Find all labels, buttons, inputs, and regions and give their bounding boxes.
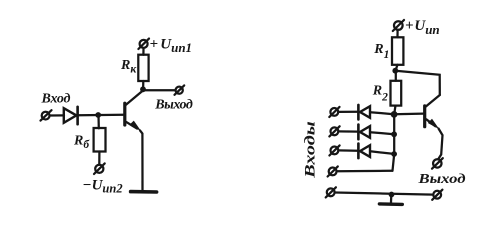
ground	[131, 190, 157, 194]
svg-text:Входы: Входы	[303, 121, 319, 179]
wire Rб to terminal	[98, 152, 100, 165]
svg-text:Вход: Вход	[41, 92, 71, 107]
resistor R1	[392, 37, 403, 65]
resistor Rб	[94, 128, 106, 152]
svg-text:Выход: Выход	[154, 98, 193, 113]
svg-text:R1: R1	[373, 42, 389, 61]
svg-text:Rк: Rк	[120, 58, 137, 75]
wire diode3 to column	[370, 151, 394, 154]
wire input2 to diode	[339, 130, 358, 132]
transistor VT2 base bar	[423, 106, 426, 127]
wire emitter to output terminal	[438, 129, 442, 159]
wire terminal to R1	[396, 30, 398, 37]
ground stem	[390, 195, 393, 203]
junction node base/Rб	[95, 112, 101, 118]
ground bar	[379, 202, 402, 206]
terminal input 2	[329, 126, 339, 136]
junction node collector	[140, 86, 146, 92]
wire input1 to diode	[338, 111, 357, 113]
transistor VT1 collector lead	[126, 91, 143, 105]
wire input to diode	[50, 114, 64, 116]
junction node common	[389, 192, 395, 198]
wire Rк to terminal	[142, 48, 144, 55]
wire input4 to column	[337, 170, 393, 173]
resistor R2	[391, 81, 402, 106]
wire diode2 to column	[370, 132, 394, 134]
terminal Выход right	[432, 158, 443, 169]
wire diode to base	[79, 114, 124, 117]
diode VD2	[358, 105, 370, 120]
wire base node to transistor	[394, 112, 423, 115]
terminal common left	[326, 187, 336, 197]
terminal +Uип	[393, 20, 404, 31]
terminal input 1	[329, 107, 339, 117]
svg-text:R2: R2	[372, 83, 388, 103]
wire emitter down to ground	[140, 130, 143, 190]
wire junction to R2	[395, 71, 397, 81]
transistor VT2 collector lead	[426, 95, 440, 107]
diode VD3	[358, 125, 370, 140]
terminal input Вход	[41, 110, 52, 120]
resistor Rк	[138, 55, 148, 81]
diode VD4	[358, 144, 370, 159]
transistor VT1 base bar	[123, 103, 126, 125]
wire R1 to junction	[396, 65, 398, 71]
diode VD1	[64, 107, 78, 124]
transistor VT1 emitter lead with arrow	[126, 121, 141, 132]
junction node R1/R2	[392, 68, 398, 74]
terminal common right	[432, 190, 442, 200]
terminal +Uип1	[138, 39, 149, 49]
wire common line	[335, 193, 433, 195]
wire R2 to base node	[394, 106, 395, 114]
junction node base	[391, 111, 398, 118]
junction node column row3	[391, 151, 397, 157]
wire feedback loop to collector	[396, 71, 440, 95]
svg-text:Rб: Rб	[73, 134, 90, 152]
wire column vertical	[393, 114, 395, 170]
wire input3 to diode	[339, 149, 358, 152]
svg-text:Выход: Выход	[417, 172, 465, 187]
svg-text:+Uип1: +Uип1	[150, 36, 193, 55]
transistor VT2 emitter lead with arrow	[426, 119, 439, 130]
terminal input 4	[328, 166, 338, 176]
junction node column row2	[391, 131, 397, 137]
svg-text:+Uип: +Uип	[405, 18, 440, 37]
terminal Выход	[175, 85, 185, 94]
svg-text:−Uип2: −Uип2	[83, 177, 123, 195]
terminal -Uип2	[94, 163, 105, 174]
wire Rк to collector node	[142, 81, 144, 89]
terminal input 3	[329, 145, 339, 155]
wire junction to Rб	[97, 115, 100, 128]
wire collector to output	[143, 89, 175, 91]
wire diode1 to base node	[370, 112, 393, 114]
